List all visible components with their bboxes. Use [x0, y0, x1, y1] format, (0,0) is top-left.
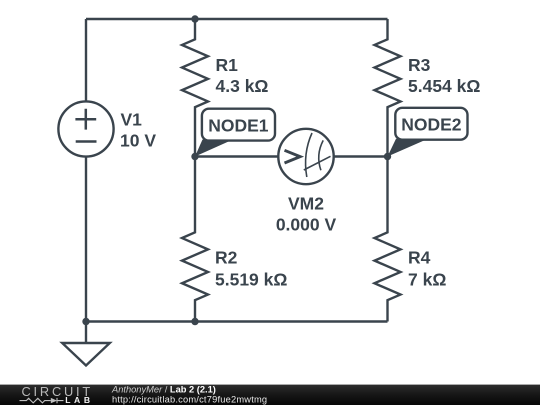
svg-text:LAB: LAB	[65, 395, 93, 405]
svg-text:5.454 kΩ: 5.454 kΩ	[408, 76, 480, 96]
resistor R1	[182, 19, 208, 157]
logo resistor-diode line	[20, 398, 64, 403]
wire bottom rail	[86, 320, 388, 322]
resistor R2	[182, 157, 208, 322]
wire top rail	[86, 18, 388, 20]
svg-text:0.000 V: 0.000 V	[276, 215, 337, 235]
svg-text:4.3 kΩ: 4.3 kΩ	[216, 76, 269, 96]
node NODE2 dot	[384, 153, 391, 160]
svg-text:R4: R4	[408, 248, 431, 268]
node NODE1 dot	[191, 153, 198, 160]
svg-text:V1: V1	[121, 109, 143, 129]
node dot ground junction	[82, 318, 89, 325]
svg-text:AnthonyMer / Lab 2 (2.1): AnthonyMer / Lab 2 (2.1)	[111, 385, 216, 395]
svg-text:NODE1: NODE1	[208, 115, 269, 135]
svg-text:10 V: 10 V	[120, 130, 156, 150]
wire left rail upper (top rail to V1)	[85, 19, 87, 102]
resistor R3	[375, 19, 401, 157]
resistor R4	[375, 157, 401, 322]
svg-text:5.519 kΩ: 5.519 kΩ	[215, 270, 287, 290]
callout NODE2	[395, 108, 467, 140]
voltmeter VM2	[278, 129, 333, 184]
wire NODE1 to voltmeter	[195, 155, 278, 157]
footer bar	[0, 385, 540, 405]
wire voltmeter to NODE2	[334, 155, 388, 157]
svg-text:R3: R3	[408, 55, 431, 75]
wire left rail lower (V1 to bottom rail)	[85, 157, 87, 322]
svg-text:http://circuitlab.com/ct79fue2: http://circuitlab.com/ct79fue2mwtmg	[112, 395, 267, 405]
ground	[85, 322, 87, 344]
voltage source V1	[58, 101, 113, 156]
svg-text:R2: R2	[215, 248, 238, 268]
svg-text:7 kΩ: 7 kΩ	[408, 270, 446, 290]
node dot bottom of R2	[191, 318, 198, 325]
svg-text:VM2: VM2	[288, 194, 324, 214]
svg-text:NODE2: NODE2	[401, 115, 462, 135]
node dot top of R1	[191, 15, 198, 22]
callout NODE1	[202, 109, 275, 141]
svg-text:R1: R1	[216, 55, 239, 75]
